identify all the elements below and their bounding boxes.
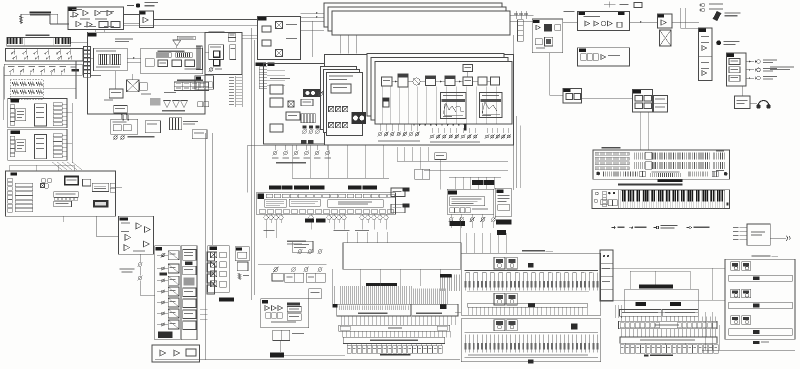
wire AC right plug: [770, 237, 786, 239]
key switch T6: [61, 68, 65, 72]
dark tag col2: [185, 262, 192, 265]
box octave divider network: [141, 48, 203, 74]
text rev: [608, 55, 620, 56]
wire chorus feed: [459, 217, 461, 243]
box tone selector matrix manual L: [619, 310, 661, 317]
black bar under panel: [657, 179, 682, 182]
text jack 2: [709, 9, 723, 10]
box tone selector matrix R: [412, 304, 458, 316]
text block preset 1: [265, 199, 287, 207]
key switch S1a: [11, 50, 15, 54]
tall connector left of mod: [517, 20, 523, 41]
wire preset left vertical: [247, 145, 249, 193]
text modulation only 2: [122, 271, 133, 272]
pot right of trimmers: [319, 92, 323, 96]
wire preset top collector: [292, 177, 389, 179]
box CPU dark border: [65, 177, 79, 185]
relay pair 2a: [494, 293, 505, 305]
slider comb bank2: [465, 335, 467, 353]
box in left module 1: [270, 85, 283, 94]
keyboard top edge line: [621, 189, 725, 191]
dark square IC 2: [214, 60, 220, 66]
key switch T2: [20, 68, 24, 72]
bus bank1: [465, 270, 599, 272]
wire tune drop: [467, 72, 469, 78]
box chorus right: [495, 188, 511, 217]
wire vcf bottom bus: [155, 359, 460, 361]
list cells column M: [15, 183, 32, 186]
caps between cards and mod box: [515, 11, 517, 19]
xformer sub osc: [276, 22, 283, 29]
key switch S4a: [45, 50, 49, 54]
box modulation: [532, 19, 563, 53]
box mod lower: [545, 37, 553, 46]
button ticks B: [624, 171, 637, 176]
cell column right of vcf: [207, 252, 215, 261]
wire drop 3: [57, 14, 59, 24]
op-amp A6: [87, 22, 92, 28]
pots row upper fx: [298, 250, 302, 254]
wires ladder into module: [267, 69, 285, 71]
key switch T1: [10, 68, 14, 72]
pot vcf 4: [162, 290, 165, 293]
text modulation delay top: [287, 241, 306, 242]
wires preset down: [265, 223, 267, 230]
text sw label 4: [39, 66, 46, 67]
right cells u1: [53, 103, 62, 106]
left verticals matrix: [331, 269, 333, 304]
wires between rect1 and rect2: [339, 35, 341, 54]
wire M down to noise: [96, 216, 118, 236]
box M microcomputer board: [6, 171, 116, 216]
sub-box col2 d: [183, 299, 196, 308]
IC xtal osc hatched: [99, 54, 110, 64]
text rows chorus: [450, 197, 485, 206]
box kb ctrl 1: [601, 200, 608, 205]
text ref osc inner: [96, 51, 116, 52]
cell oct 4: [209, 82, 213, 88]
text under trio: [162, 110, 185, 111]
box key assigner: [205, 32, 242, 74]
legend audio signal: [628, 226, 633, 228]
text tune panel 2: [724, 44, 736, 45]
wire long fx horizontal: [258, 264, 326, 266]
box matrix manual: [619, 321, 718, 329]
text sw label 2: [18, 66, 25, 67]
xsq M clock: [41, 184, 45, 188]
relay pair 2b: [507, 293, 518, 305]
small comp top: [634, 3, 642, 8]
key switch S6b: [68, 55, 72, 59]
relay cells right bank 2: [731, 289, 740, 297]
text tune note 2: [144, 5, 154, 6]
text out label 2: [763, 68, 777, 69]
bar left module: [270, 78, 290, 79]
op-amp bal1: [585, 21, 590, 26]
cells delay row2: [266, 313, 271, 319]
headphone icon: [758, 101, 769, 107]
text tone selector vc bottom: [380, 354, 411, 356]
pot rows below bus: [379, 124, 381, 131]
box VCA bal: [578, 12, 630, 31]
wire top right long: [124, 24, 258, 26]
pots left module dark tops: [302, 125, 306, 128]
text KEY ASSIGNER: [209, 31, 225, 32]
key switch T5: [51, 68, 55, 72]
box lfo small bottom: [273, 330, 290, 340]
op-amp rev: [601, 55, 606, 60]
bar soft board control title: [276, 162, 306, 163]
cells under key assign: [54, 198, 57, 201]
stacked cards DCO x6: [367, 54, 504, 117]
black bars above chorus: [472, 180, 483, 185]
IC bar divider 2: [176, 53, 193, 57]
box vcf stage 2: [168, 264, 179, 273]
gray bar under panel: [618, 183, 682, 185]
box delay sub right: [287, 307, 301, 313]
text tone selector vc: [650, 355, 673, 357]
wires sub osc right: [301, 12, 325, 14]
wire bal to eq: [629, 21, 657, 23]
text mod bottom: [536, 48, 545, 49]
vertical feeds to preset panel: [291, 146, 293, 179]
striped connector kb: [603, 191, 607, 206]
pots row mid fx: [274, 268, 278, 272]
bus bottom of cards: [376, 123, 512, 125]
text sw label 6: [59, 66, 66, 67]
tag BAL L: [578, 12, 585, 15]
clock oscillator circles: [41, 178, 46, 183]
box effects right 1: [235, 247, 249, 261]
piano mid divider: [25, 38, 54, 46]
box DCO counter: [426, 76, 436, 86]
waveform box B: [480, 93, 503, 118]
box left module 5: [301, 99, 313, 106]
text GLIDE CONTROLLER: [30, 12, 52, 14]
resistor ladder R3a: [28, 82, 35, 86]
box sub sub1: [262, 26, 271, 32]
box mod l: [535, 39, 542, 45]
cell rev 3: [593, 54, 598, 61]
key switch S3b: [35, 55, 39, 59]
text in EG: [80, 19, 90, 20]
box kb wheel 2: [613, 200, 617, 206]
long bar bank mid: [468, 303, 588, 307]
dark trimmers in left module: [303, 89, 320, 97]
key switch S5a: [56, 50, 60, 54]
text level: [620, 4, 629, 5]
pot vcf 2: [162, 267, 165, 270]
comb matrix right: [413, 288, 447, 304]
arrowhead row on bus: [413, 125, 415, 127]
tag chorus R: [496, 189, 503, 193]
wire output to phones: [741, 86, 743, 96]
jack output 3: [755, 76, 760, 80]
box bender sub2: [644, 96, 652, 102]
box DCO wave 3: [491, 77, 500, 85]
tap ladder right of ka: [235, 76, 237, 107]
pot vcf 1: [162, 254, 165, 257]
dark bar manual matrix: [639, 285, 673, 289]
pots below vco: [114, 136, 117, 139]
cell oct 2: [200, 82, 204, 88]
box reverb sub2: [574, 94, 581, 100]
tag double touch 2: [268, 63, 275, 66]
op-amp A2: [83, 10, 88, 16]
text tone selector matrix L: [358, 313, 387, 314]
wire vertical inside cards: [381, 87, 383, 124]
text in EG 5: [84, 26, 96, 27]
keyboard left control block: [618, 190, 620, 209]
wires DCO chain: [392, 81, 398, 83]
switch contact row 2 box: [4, 64, 82, 75]
box VCO master board: [88, 32, 206, 114]
wire out 1: [746, 61, 754, 63]
text pitch mod: [243, 275, 249, 276]
text memory bank vc: [752, 255, 771, 256]
text jack 1: [709, 4, 723, 5]
box memory bank unit 2: [461, 319, 601, 362]
box DCO chain 2 with caps: [398, 74, 408, 87]
black bars below preset: [305, 218, 314, 222]
tall transformer box: [660, 30, 672, 46]
vertical ladder rails: [258, 67, 260, 90]
box kb wheel 1: [608, 200, 612, 206]
box delay sub right 2: [287, 314, 301, 321]
slider group row1 C: [689, 152, 709, 159]
op-amp pa2: [702, 71, 707, 76]
box divider stage 4: [185, 60, 195, 67]
tag M board: [10, 172, 17, 175]
wire M right out: [116, 187, 123, 189]
wire effects bottom: [279, 341, 281, 353]
cell u1 5: [10, 122, 15, 126]
wire frame manual matrix: [625, 289, 699, 313]
dark tall element bank2: [571, 324, 578, 330]
text in EG 3: [72, 9, 82, 10]
xformer effect 3: [211, 271, 217, 277]
legend pulse: [612, 226, 616, 228]
text tone selector matrix R: [416, 313, 442, 314]
box tune pair B: [391, 204, 405, 213]
slider strip row 3: [595, 162, 629, 165]
cell rev 2: [587, 54, 592, 61]
dark square IC 1: [214, 51, 220, 57]
tick labels bank1: [466, 271, 470, 274]
dark tag row2 right: [72, 69, 80, 72]
box effect cell 3: [220, 271, 227, 277]
long black bar matrix: [366, 283, 397, 286]
text ka bottom: [215, 69, 222, 70]
cell u1 3: [10, 113, 15, 117]
resistor ladder R1b: [12, 90, 19, 94]
wire long vertical right of cards: [512, 35, 514, 190]
pot vcf 7: [162, 323, 165, 326]
white box row2: [645, 162, 652, 169]
text PANEL LAYOUT: [602, 147, 621, 149]
cell u1 1: [10, 105, 15, 109]
tag reverb: [564, 89, 571, 92]
wire units right bus: [71, 103, 73, 163]
box delay chorus: [261, 299, 309, 328]
text power trans 2: [725, 15, 738, 16]
cells key assigner top right: [228, 34, 235, 38]
wire bottom long: [284, 354, 345, 356]
composite function table: [174, 82, 209, 91]
text panel right row2: [716, 170, 724, 171]
small boxes left of chorus: [435, 153, 447, 160]
box AC power supply: [747, 224, 770, 245]
wire sub right low: [301, 29, 313, 31]
xformer effect 2: [211, 261, 217, 267]
text right margin: [770, 67, 794, 68]
box effects switches: [208, 246, 230, 293]
text above ticks: [652, 171, 680, 174]
jack output 1: [755, 60, 760, 64]
text above ref osc: [115, 39, 133, 40]
text block preset 3: [328, 200, 384, 207]
comb feed into membank: [440, 274, 459, 290]
box decoder: [54, 201, 72, 207]
pitch mod comps: [238, 273, 241, 279]
tag NOISE S/H: [120, 217, 128, 220]
button ticks A: [604, 171, 621, 176]
op-amp A1: [73, 12, 78, 18]
text row2 right: [71, 66, 77, 67]
op-amp mod: [536, 25, 540, 30]
text tune panel: [724, 41, 740, 42]
keyboard keys white dividers: [621, 190, 725, 208]
text in EG 7: [70, 16, 77, 17]
box vcf stage 6: [168, 309, 179, 318]
text KEY SWITCHES: [26, 35, 50, 37]
box noise sample hold amp: [119, 216, 154, 254]
tag double touch 1: [255, 63, 266, 66]
jack symbols top right: [699, 3, 704, 7]
cells top row preset: [266, 194, 273, 198]
verticals between matrix and right bank: [704, 312, 706, 350]
box vcf stage 1: [168, 251, 179, 260]
box EG sub2: [111, 22, 120, 28]
tag BENDER: [633, 90, 641, 93]
resistor ladder R4b: [36, 90, 43, 94]
vertical wires below jacks: [680, 8, 682, 28]
box vcf bottom amp: [152, 345, 200, 362]
labels below pots: [378, 141, 420, 142]
resistor ladder R2b: [20, 90, 27, 94]
box EG (envelope generator board): [68, 7, 124, 30]
text MEMORY BANK: [522, 250, 545, 251]
op-amp tune: [143, 17, 148, 23]
text panel right row1: [716, 151, 724, 152]
box divider tag module: [383, 98, 389, 107]
pot vcf 6: [162, 312, 165, 315]
dark block in mod: [544, 24, 552, 31]
stacked cards top voice board: [324, 3, 502, 27]
contact row in matrix L: [339, 306, 408, 310]
box u1 inner: [16, 109, 26, 121]
text preset tone scale memory: [370, 340, 418, 341]
wire drop: [20, 14, 22, 24]
cell u2 4: [10, 149, 15, 153]
cell matrix end L: [340, 326, 350, 330]
box panel layout: [593, 150, 730, 179]
tall box gate ka: [230, 45, 236, 60]
box lfo delay below preset: [292, 241, 313, 252]
op-amp a4: [144, 241, 150, 247]
box effect cell 2: [220, 262, 227, 268]
cell oct 1: [196, 82, 200, 88]
relay cells right bank 1: [731, 262, 740, 270]
tall IC u2: [34, 135, 46, 159]
box tune pair A: [391, 188, 405, 197]
box fx r inner: [238, 252, 247, 258]
wire EG to tune amp a: [124, 14, 140, 16]
tag effects: [210, 246, 218, 249]
wire vco to ka: [205, 51, 209, 53]
wire mod down: [549, 53, 551, 95]
box out level 2: [729, 67, 740, 73]
key switch T3: [30, 68, 34, 72]
wires membank link: [601, 267, 725, 269]
wire ladder bus 2: [10, 96, 43, 98]
cell kybd cv 2: [123, 125, 131, 131]
box amp right of delay: [309, 289, 322, 299]
wire pot down: [139, 281, 141, 296]
box sub oscillator: [258, 17, 301, 60]
dark box resonance: [158, 332, 173, 339]
gray box dac: [150, 98, 161, 106]
wires top into M: [9, 165, 11, 171]
cell kybd cv 1: [113, 125, 121, 131]
keyboard enclosure: [592, 190, 730, 209]
black bar filter label: [219, 297, 234, 301]
tag EG: [69, 8, 77, 11]
key switch S6a: [67, 50, 71, 54]
long cell right bank 3: [729, 329, 792, 335]
tag delay: [262, 300, 268, 304]
right cells u2: [53, 134, 62, 137]
tag power amp: [699, 29, 706, 32]
tag unit2: [10, 130, 20, 134]
triangles delay: [265, 306, 270, 311]
text right of connector: [183, 121, 198, 122]
op-amp bal3: [608, 21, 613, 26]
slider group row1 B: [657, 152, 686, 159]
text modulation only 1: [120, 269, 135, 270]
key switch S5b: [58, 55, 62, 59]
box memory check: [92, 183, 109, 191]
wire M down 2: [62, 216, 64, 222]
box reference osc: [94, 48, 128, 71]
black bar bottom label: [270, 352, 284, 357]
wires from selector frame up: [629, 271, 631, 289]
text bal title: [583, 16, 600, 17]
long cell right bank 2: [729, 302, 792, 308]
relay pair 3a: [494, 320, 505, 331]
box preset tone scale memory manual: [620, 337, 717, 343]
box sh lower: [114, 106, 128, 114]
box below vco right: [192, 130, 207, 139]
box mod r: [555, 25, 561, 31]
resistor ladder R4a: [36, 82, 43, 86]
resistor ladder R2a: [20, 82, 27, 86]
box octave sw below vco: [195, 76, 214, 90]
wires AC left: [740, 227, 748, 229]
op-amp a3: [125, 234, 131, 240]
waveform graph B: [482, 102, 500, 114]
wire soft board bracket: [248, 144, 392, 146]
